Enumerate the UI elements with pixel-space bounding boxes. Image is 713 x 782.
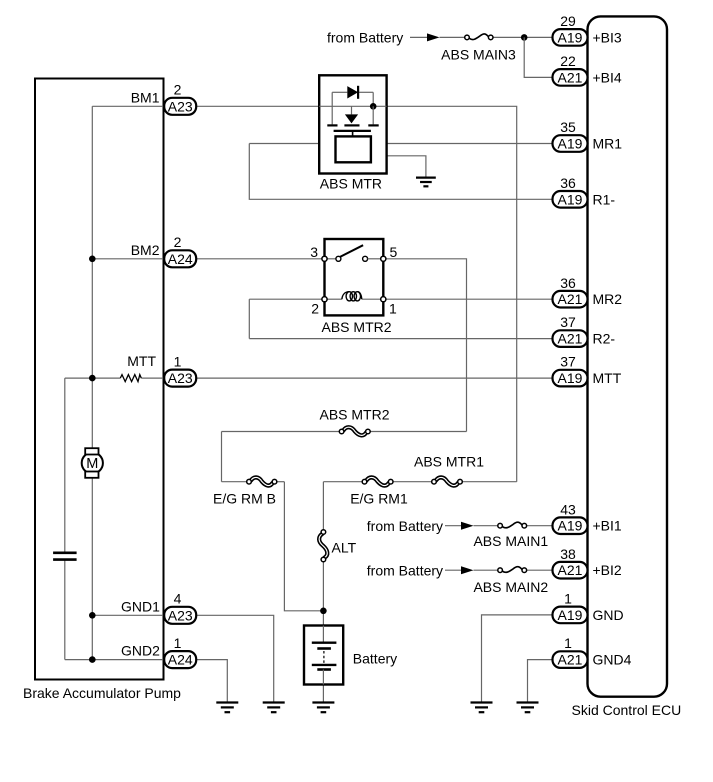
ground GND2 (216, 701, 238, 703)
svg-text:ABS MTR2: ABS MTR2 (319, 407, 389, 423)
wire BM2 to relay pin 3 (197, 258, 325, 260)
wire from Battery to +BI2 (445, 569, 462, 571)
wire ABS MTR2 fuse row (222, 431, 340, 433)
svg-text:37: 37 (560, 314, 576, 330)
wire GND1 pump internal (92, 614, 164, 616)
pin BM2 A24 (164, 250, 196, 267)
wire diode loop (331, 92, 333, 106)
svg-text:BM2: BM2 (131, 242, 160, 258)
fuse ABS MTR1 (436, 477, 458, 485)
Brake Accumulator Pump enclosure (35, 79, 164, 680)
svg-text:35: 35 (560, 119, 576, 135)
svg-text:1: 1 (174, 354, 182, 370)
fuse E/G RM1 (366, 477, 389, 485)
svg-text:BM1: BM1 (131, 89, 160, 105)
wire MTT pump internal (65, 377, 121, 379)
motor M (82, 452, 103, 473)
diode flyback (points right) (347, 86, 358, 98)
fusible link ALT (319, 534, 327, 558)
svg-text:GND1: GND1 (121, 598, 160, 614)
relay pin 2 (322, 297, 327, 302)
svg-text:A23: A23 (168, 607, 193, 623)
svg-text:E/G RM B: E/G RM B (213, 491, 276, 507)
fuse ABS MAIN2 (503, 567, 523, 573)
svg-text:A19: A19 (558, 136, 583, 152)
svg-text:A21: A21 (558, 69, 583, 85)
svg-text:A21: A21 (558, 562, 583, 578)
svg-text:A23: A23 (168, 98, 193, 114)
wire MTT to ECU (197, 377, 553, 379)
svg-text:2: 2 (174, 234, 182, 250)
svg-text:5: 5 (390, 244, 398, 260)
node BM2 junction (89, 255, 96, 262)
wire battery to ground (322, 685, 324, 703)
svg-text:22: 22 (560, 53, 576, 69)
wire from Battery to +BI1 (445, 525, 462, 527)
svg-text:from Battery: from Battery (367, 518, 443, 534)
pin +BI2 A21 (553, 562, 588, 579)
svg-text:A21: A21 (558, 291, 583, 307)
relay switch (327, 258, 338, 260)
wire ABS MTR ground stub (371, 156, 426, 178)
svg-text:A19: A19 (558, 607, 583, 623)
wire E/G RM B row (222, 481, 247, 483)
fuse ABS MAIN1 (503, 522, 523, 528)
svg-text:GND: GND (593, 607, 624, 623)
svg-text:A23: A23 (168, 370, 193, 386)
pin MR2 A21 (553, 291, 588, 308)
svg-text:A21: A21 (558, 652, 583, 668)
relay ABS MTR2 box (325, 239, 384, 315)
wire GND2 to ground (197, 660, 228, 703)
svg-text:ABS MAIN3: ABS MAIN3 (441, 47, 516, 63)
svg-text:2: 2 (311, 301, 319, 317)
wire +BI4 branch (524, 37, 552, 77)
svg-text:1: 1 (389, 301, 397, 317)
svg-text:MR2: MR2 (593, 291, 623, 307)
svg-text:43: 43 (560, 501, 576, 517)
motor block M1 (336, 136, 371, 162)
relay pin 3 (322, 256, 327, 261)
wire GND to ground (482, 615, 553, 703)
svg-text:from Battery: from Battery (327, 30, 403, 46)
wire BM1 pump internal (92, 105, 164, 107)
svg-text:Battery: Battery (353, 651, 397, 667)
pin +BI3 A19 (553, 29, 588, 46)
wire BM1 to ABS MTR and down (197, 106, 517, 481)
wire R1- jog (249, 144, 552, 200)
fuse ABS MTR2 (343, 427, 366, 435)
svg-text:2: 2 (174, 82, 182, 98)
wire down to E/G RM B (221, 432, 223, 482)
svg-text:GND2: GND2 (121, 643, 160, 659)
fuse ABS MAIN3 (469, 34, 488, 40)
svg-text:M: M (86, 456, 98, 472)
wire GND2 pump internal (65, 659, 164, 661)
wire relay pin2 to R2- (248, 299, 250, 338)
wire GND1 to ground (197, 615, 274, 702)
svg-text:37: 37 (560, 354, 576, 370)
svg-text:ABS MTR2: ABS MTR2 (322, 319, 392, 335)
transistor contact bars (327, 124, 337, 126)
node GND1 junction (89, 612, 96, 619)
pin BM1 A23 (164, 98, 196, 115)
pin MTT A23 (164, 370, 196, 387)
node +BI3/+BI4 junction (521, 34, 528, 41)
ABS MTR unit box (319, 75, 386, 173)
battery cells (322, 626, 324, 643)
relay coil (327, 298, 342, 300)
svg-text:+BI4: +BI4 (593, 69, 622, 85)
wire pump vertical bus (91, 106, 93, 659)
svg-text:ABS MAIN2: ABS MAIN2 (473, 579, 548, 595)
svg-text:MTT: MTT (593, 370, 622, 386)
svg-text:A21: A21 (558, 331, 583, 347)
svg-text:ABS MAIN1: ABS MAIN1 (473, 533, 548, 549)
svg-text:R1-: R1- (593, 191, 616, 207)
wire BM2 pump internal (92, 258, 164, 260)
wire transistor risers (331, 106, 333, 124)
pin R1- A19 (553, 191, 588, 208)
svg-text:36: 36 (560, 275, 576, 291)
svg-text:1: 1 (564, 591, 572, 607)
wire GND4 to ground (528, 660, 553, 703)
svg-text:MR1: MR1 (593, 136, 623, 152)
capacitor (53, 551, 77, 554)
svg-text:36: 36 (560, 175, 576, 191)
svg-text:29: 29 (560, 13, 576, 29)
wire MR1 line (249, 143, 552, 145)
svg-text:+BI1: +BI1 (593, 518, 622, 534)
pin GND1 A23 (164, 607, 196, 624)
svg-text:+BI2: +BI2 (593, 562, 622, 578)
wire relay pin1 to MR2 (386, 298, 553, 300)
node GND2 junction (89, 656, 96, 663)
svg-text:4: 4 (174, 591, 182, 607)
pin GND4 A21 (553, 651, 588, 668)
wire fuse row right (323, 481, 362, 483)
svg-text:GND4: GND4 (593, 652, 632, 668)
svg-text:A19: A19 (558, 29, 583, 45)
svg-text:A19: A19 (558, 370, 583, 386)
wire from Battery to +BI3 (410, 36, 428, 38)
ground GND4 (517, 701, 539, 703)
svg-text:1: 1 (564, 635, 572, 651)
svg-text:from Battery: from Battery (367, 562, 443, 578)
svg-text:ALT: ALT (332, 540, 357, 556)
svg-text:A24: A24 (168, 652, 193, 668)
wire ALT branch (322, 482, 324, 530)
svg-text:E/G RM1: E/G RM1 (350, 491, 408, 507)
svg-text:MTT: MTT (127, 353, 156, 369)
wire relay pin5 down (386, 259, 467, 432)
svg-text:+BI3: +BI3 (593, 29, 622, 45)
node MTT junction (89, 375, 96, 382)
svg-text:ABS MTR: ABS MTR (320, 176, 382, 192)
relay pin 1 (381, 297, 386, 302)
pin +BI4 A21 (553, 69, 588, 86)
svg-text:3: 3 (310, 244, 318, 260)
transistor diode (points down) (345, 114, 358, 123)
pin R2- A21 (553, 330, 588, 347)
svg-text:A24: A24 (168, 251, 193, 267)
relay pin 5 (381, 256, 386, 261)
pin +BI1 A19 (553, 517, 588, 534)
Skid Control ECU enclosure (588, 16, 668, 696)
node ABS MTR junction (370, 103, 377, 110)
ground GND (471, 701, 493, 703)
pin MR1 A19 (553, 135, 588, 152)
wire capacitor branch (64, 378, 66, 552)
ground GND1 (263, 701, 285, 703)
svg-text:38: 38 (560, 546, 576, 562)
pin GND2 A24 (164, 651, 196, 668)
svg-text:Brake Accumulator Pump: Brake Accumulator Pump (23, 685, 181, 701)
resistor MTT (120, 375, 141, 382)
transistor gate plate (334, 130, 371, 132)
pin GND A19 (553, 607, 588, 624)
svg-text:ABS MTR1: ABS MTR1 (414, 454, 484, 470)
wire E/G RM B down to battery (284, 482, 323, 611)
ground battery (312, 701, 334, 703)
svg-text:Skid Control ECU: Skid Control ECU (572, 702, 682, 718)
svg-text:1: 1 (174, 635, 182, 651)
ground ABS MTR (416, 177, 436, 179)
svg-text:R2-: R2- (593, 331, 616, 347)
svg-text:A19: A19 (558, 518, 583, 534)
wire BM1 through ABS MTR (319, 105, 386, 107)
pin MTT A19 (553, 370, 588, 387)
battery box (304, 626, 343, 685)
fuse E/G RM B (251, 477, 273, 485)
node battery junction (320, 608, 327, 615)
svg-text:A19: A19 (558, 191, 583, 207)
